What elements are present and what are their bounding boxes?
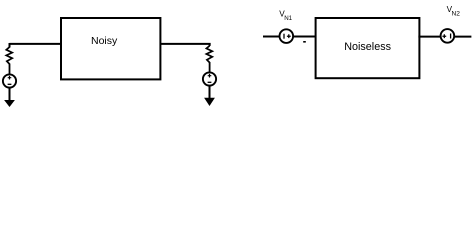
ground arrow (left): [4, 100, 15, 107]
voltage source VN2 circle: [441, 29, 455, 43]
VN2 plus sign: [442, 34, 446, 38]
VN2 negative terminal tick: [450, 34, 452, 39]
wire: squiggle to source: [9, 64, 11, 75]
VN1 negative terminal tick: [283, 34, 285, 39]
wire: output node stub down: [209, 43, 211, 46]
resistor squiggle (input noise source impedance): [6, 47, 12, 64]
minus sign: [208, 81, 212, 83]
voltage source VN1 circle: [280, 29, 294, 43]
plus sign: [208, 74, 212, 78]
svg-text:N1: N1: [284, 15, 292, 22]
noisy two-port box: [61, 18, 160, 79]
minus polarity mark near box input: [303, 41, 306, 43]
wire: Noisy box to right output node: [160, 43, 210, 45]
resistor squiggle (output noise source impedance): [206, 46, 212, 63]
wire: open left terminal to VN1: [263, 36, 280, 38]
plus sign: [8, 76, 12, 80]
noise voltage source circle (right): [203, 72, 216, 85]
noise voltage source circle (left): [3, 74, 16, 87]
wire: squiggle to source: [209, 62, 211, 72]
ground arrow (right): [204, 98, 215, 106]
noiseless two-port box: [316, 18, 420, 78]
svg-text:Noisy: Noisy: [91, 35, 118, 47]
wire: VN1 to Noiseless box: [293, 36, 316, 38]
svg-text:Noiseless: Noiseless: [344, 41, 391, 53]
minus sign: [8, 83, 12, 85]
svg-text:N2: N2: [452, 11, 461, 18]
wire: input node stub down: [9, 43, 11, 48]
wire: VN2 to open right terminal: [454, 36, 471, 38]
wire: Noiseless box to VN2: [418, 36, 440, 38]
wire: source to ground: [9, 88, 11, 101]
wire: left input to Noisy box: [10, 43, 62, 45]
VN1 plus sign: [287, 34, 291, 38]
wire: source to ground: [209, 86, 211, 99]
